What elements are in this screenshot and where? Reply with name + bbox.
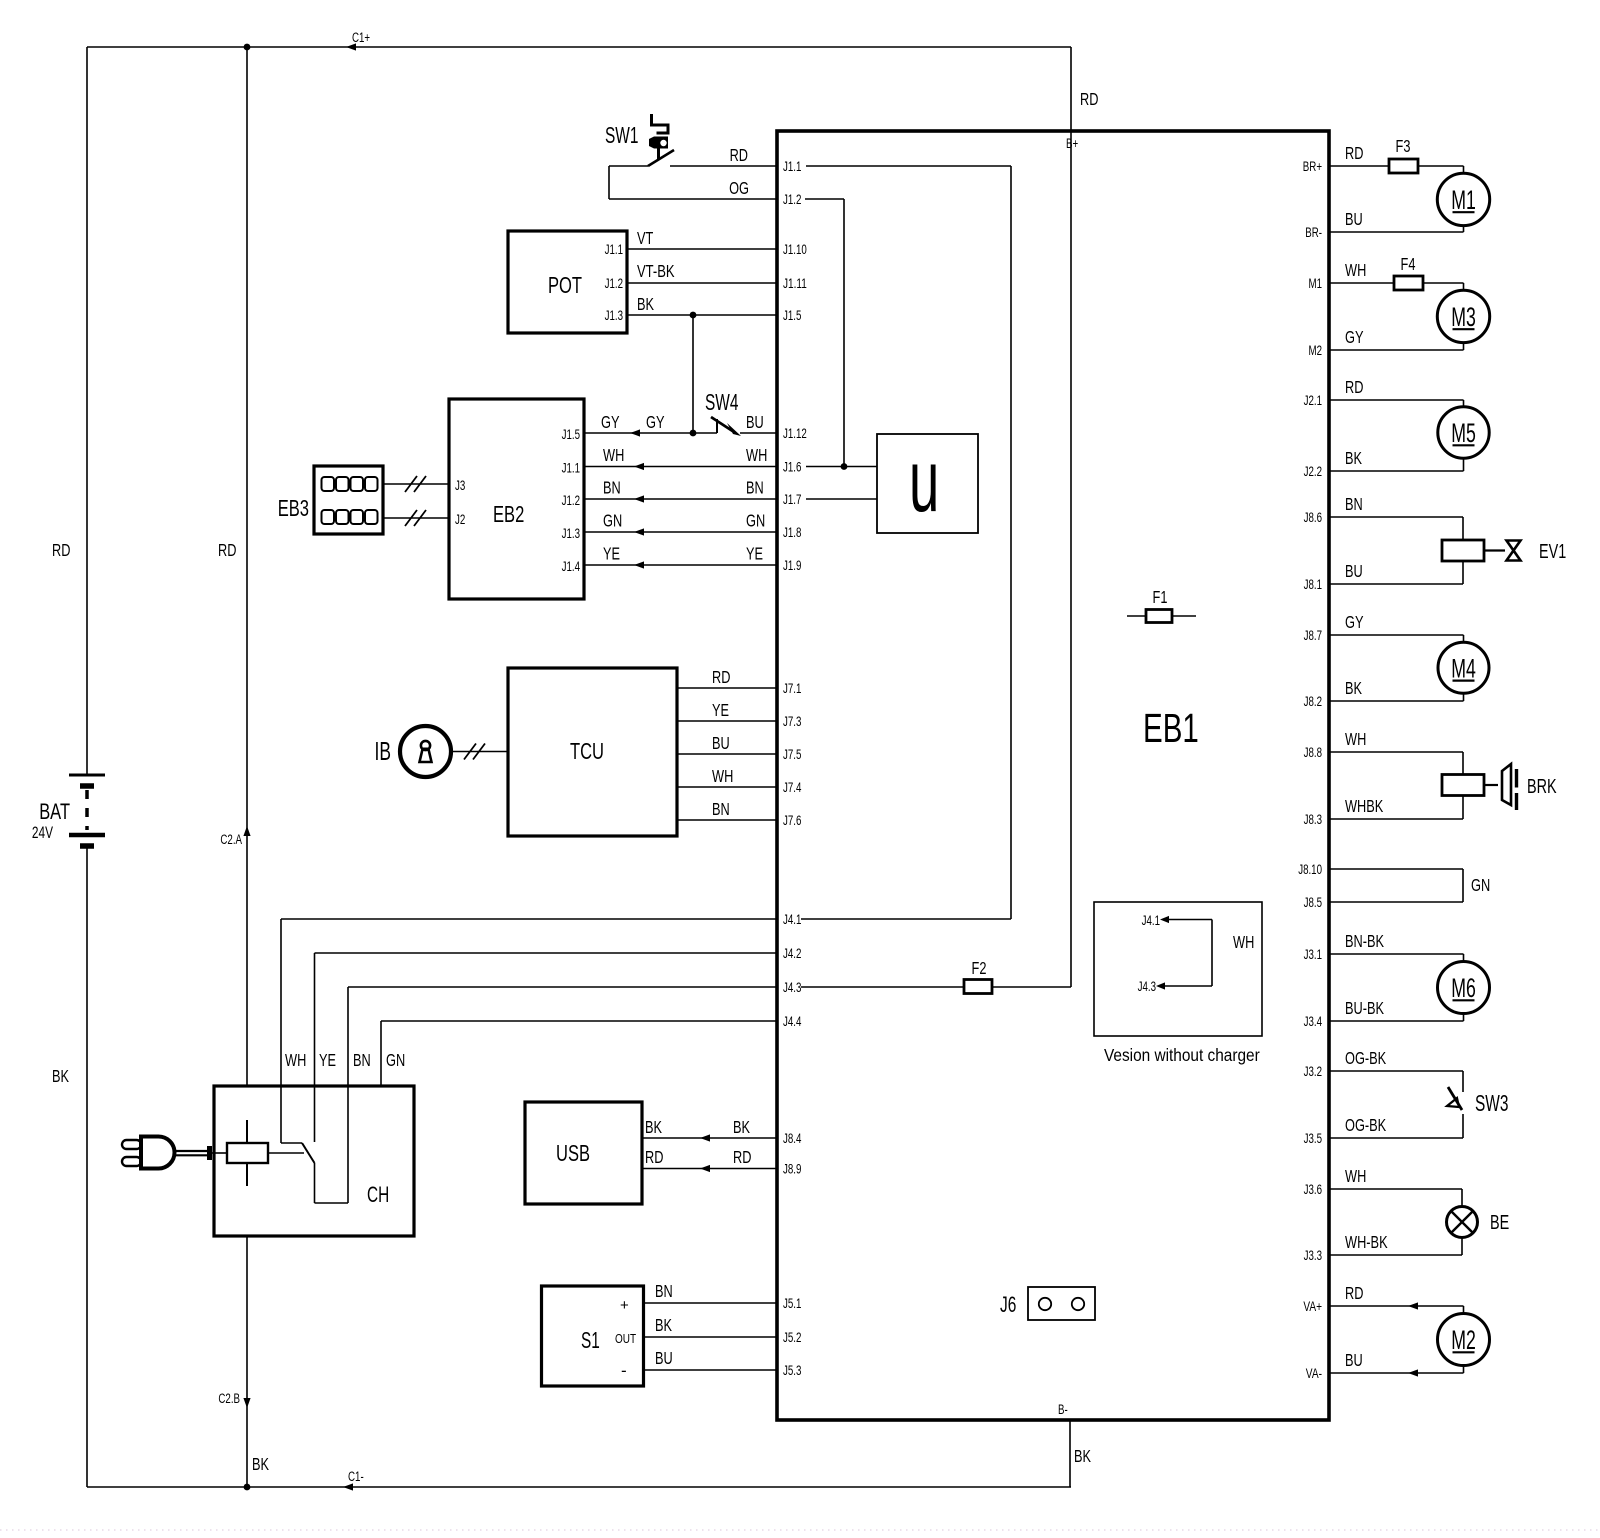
wire internal J1.2 to U node	[805, 198, 844, 200]
svg-text:J3.3: J3.3	[1304, 1248, 1322, 1263]
svg-text:BR+: BR+	[1303, 159, 1322, 174]
svg-text:M3: M3	[1451, 302, 1476, 332]
svg-text:BK: BK	[252, 1454, 269, 1474]
arrow note J4.3	[1156, 982, 1165, 989]
svg-text:USB: USB	[556, 1140, 590, 1166]
svg-text:B+: B+	[1066, 136, 1078, 151]
svg-text:J3.4: J3.4	[1304, 1014, 1323, 1029]
wire VT POT to J1.10	[627, 248, 777, 250]
svg-text:BU: BU	[712, 733, 730, 753]
wire WH J4.1 to charger	[281, 918, 777, 920]
svg-text:J8.8: J8.8	[1304, 745, 1322, 760]
svg-text:BN: BN	[353, 1050, 371, 1070]
wire relay to switch	[268, 1152, 304, 1154]
svg-text:C2.B: C2.B	[218, 1391, 240, 1406]
svg-text:RD: RD	[730, 145, 748, 165]
svg-text:B-: B-	[1058, 1402, 1068, 1417]
svg-text:BK: BK	[637, 294, 654, 314]
decor dotted margin	[0, 1529, 1600, 1531]
svg-text:J8.6: J8.6	[1304, 510, 1322, 525]
pin labels EB1 right edge	[1298, 159, 1322, 1381]
wire BN J4.3 to charger	[348, 986, 777, 988]
svg-text:M4: M4	[1451, 653, 1476, 683]
module EB2 box	[449, 399, 584, 599]
switch SW4 contact stub	[716, 419, 718, 433]
wire BK C2 branch lower	[246, 1236, 248, 1487]
svg-text:YE: YE	[603, 544, 620, 564]
svg-text:RD: RD	[1345, 143, 1363, 163]
svg-text:J1.4: J1.4	[562, 559, 581, 574]
wire BK J8.2 to M4	[1329, 700, 1464, 702]
svg-text:J3.1: J3.1	[1304, 947, 1322, 962]
wire RD USB to J8.9	[642, 1168, 777, 1170]
potentiometer POT box	[508, 231, 627, 333]
motor M6	[1438, 962, 1490, 1014]
svg-text:SW3: SW3	[1475, 1090, 1508, 1116]
svg-text:YE: YE	[712, 700, 729, 720]
wire F3 to M1	[1418, 165, 1464, 167]
svg-text:J1.9: J1.9	[783, 558, 801, 573]
converter U box	[877, 434, 978, 533]
motor M1	[1437, 173, 1489, 225]
connector J6 box	[1028, 1287, 1095, 1320]
svg-text:BE: BE	[1490, 1212, 1509, 1234]
svg-text:J1.12: J1.12	[783, 426, 807, 441]
svg-text:EB1: EB1	[1143, 705, 1199, 751]
svg-text:IB: IB	[375, 736, 392, 766]
svg-text:J4.1: J4.1	[783, 912, 801, 927]
wire WH-BK J3.3 to BE	[1329, 1254, 1462, 1256]
controller EB1 box	[777, 131, 1329, 1420]
svg-text:J4.4: J4.4	[783, 1014, 802, 1029]
svg-text:J1.11: J1.11	[783, 276, 807, 291]
motor M5	[1438, 407, 1489, 458]
svg-text:24V: 24V	[32, 824, 53, 842]
wire RD BR+ to F3	[1329, 165, 1389, 167]
svg-text:OG: OG	[729, 178, 749, 198]
sensor S1 box	[542, 1286, 644, 1386]
svg-text:POT: POT	[548, 272, 582, 298]
svg-text:EB3: EB3	[278, 495, 309, 521]
svg-text:VT-BK: VT-BK	[637, 261, 675, 281]
svg-text:M2: M2	[1451, 1325, 1476, 1355]
wire GN EB2 to EB1	[584, 531, 777, 533]
svg-text:WH-BK: WH-BK	[1345, 1232, 1388, 1252]
switch SW4 blade	[711, 417, 734, 432]
svg-text:YE: YE	[319, 1050, 336, 1070]
arrow note J4.1	[1160, 916, 1169, 923]
arrow RD VA+	[1408, 1302, 1418, 1309]
svg-text:J7.3: J7.3	[783, 714, 801, 729]
svg-text:WH: WH	[603, 445, 624, 465]
svg-text:BU: BU	[1345, 1350, 1363, 1370]
svg-text:M2: M2	[1309, 343, 1323, 358]
svg-text:RD: RD	[52, 540, 70, 560]
svg-text:WH: WH	[1233, 932, 1254, 952]
svg-text:M1: M1	[1451, 185, 1476, 215]
wire RD VA+ to M2	[1329, 1305, 1464, 1307]
arrow WH toward EB2	[634, 463, 644, 470]
slash marks J2 multiwire	[405, 510, 417, 526]
wire BN-BK J3.1 to M6	[1329, 953, 1464, 955]
connector EB3 box	[314, 466, 383, 534]
slash marks IB multiwire	[464, 744, 476, 760]
wire YE TCU to EB1	[677, 720, 777, 722]
wire RD TCU to EB1	[677, 687, 777, 689]
svg-text:C2.A: C2.A	[220, 832, 242, 847]
wire B+ top bus C1+	[87, 46, 1071, 48]
svg-text:RD: RD	[645, 1147, 663, 1167]
svg-text:WH: WH	[285, 1050, 306, 1070]
junction dot bottom bus / C2 branch	[244, 1484, 251, 1491]
svg-text:GN: GN	[746, 511, 765, 531]
svg-text:J8.5: J8.5	[1304, 895, 1322, 910]
svg-text:BK: BK	[645, 1117, 662, 1137]
svg-text:J8.3: J8.3	[1304, 812, 1322, 827]
svg-text:BN: BN	[746, 478, 764, 498]
svg-text:J1.3: J1.3	[605, 308, 623, 323]
wire RD battery positive left drop	[86, 47, 88, 776]
wire BN EB2 to EB1	[584, 498, 777, 500]
svg-text:BU: BU	[1345, 561, 1363, 581]
plug cord	[175, 1150, 207, 1152]
svg-text:WH: WH	[1345, 1166, 1366, 1186]
wire BRK coil to pad	[1484, 784, 1498, 786]
wire GY M2 to M3	[1329, 349, 1464, 351]
svg-text:J4.3: J4.3	[1138, 979, 1156, 994]
svg-text:J3.2: J3.2	[1304, 1064, 1322, 1079]
plug AC body	[141, 1137, 175, 1169]
wire RD J2.1 to M5	[1329, 399, 1464, 401]
wire VT-BK POT to J1.11	[627, 282, 777, 284]
svg-text:SW4: SW4	[705, 389, 739, 415]
svg-text:M1: M1	[1309, 276, 1323, 291]
pin labels EB1 left edge	[783, 159, 807, 1378]
svg-text:GN: GN	[603, 511, 622, 531]
slash marks J3 multiwire	[405, 476, 417, 492]
svg-text:RD: RD	[1345, 377, 1363, 397]
svg-text:J2.2: J2.2	[1304, 464, 1322, 479]
svg-text:BK: BK	[52, 1066, 69, 1086]
wire internal J1.7 to U	[806, 498, 877, 500]
wire YE EB2 to EB1	[584, 564, 777, 566]
switch CH blade	[302, 1143, 315, 1163]
switch SW1 key icon	[652, 114, 669, 133]
svg-text:OUT: OUT	[615, 1331, 636, 1346]
wire note J4.1 to J4.3 link	[1163, 919, 1212, 921]
svg-text:J4.3: J4.3	[783, 980, 801, 995]
wire EV1 coil to valve	[1484, 549, 1505, 551]
svg-text:J2: J2	[455, 512, 465, 527]
svg-text:J8.10: J8.10	[1298, 862, 1322, 877]
svg-text:TCU: TCU	[570, 738, 604, 764]
svg-text:VT: VT	[637, 228, 654, 248]
wire OG SW1 loop to J1.2	[608, 166, 610, 199]
keyhole icon IB	[421, 741, 430, 750]
wire internal J4.3 to B+ via F2	[801, 986, 1071, 988]
svg-text:J1.2: J1.2	[562, 493, 580, 508]
svg-text:RD: RD	[733, 1147, 751, 1167]
svg-text:BU: BU	[1345, 209, 1363, 229]
arrow GN toward EB2	[634, 528, 644, 535]
svg-text:OG-BK: OG-BK	[1345, 1048, 1386, 1068]
module USB box	[525, 1102, 642, 1204]
wire BU VA- to M2	[1329, 1372, 1464, 1374]
svg-text:WH: WH	[746, 445, 767, 465]
svg-text:GY: GY	[1345, 327, 1364, 347]
svg-text:RD: RD	[218, 540, 236, 560]
wire GN J4.4 to charger	[381, 1020, 777, 1022]
svg-text:J1.10: J1.10	[783, 242, 807, 257]
svg-text:RD: RD	[712, 667, 730, 687]
wire BU BR- to M1	[1329, 231, 1464, 233]
wire WH M1 to F4	[1329, 282, 1394, 284]
wire F4 to M3	[1423, 282, 1464, 284]
arrow BK USB	[700, 1134, 710, 1141]
wire GY SW4 row	[584, 432, 717, 434]
wire CH switch to BN	[314, 1163, 316, 1203]
arrow GY toward EB2	[630, 429, 640, 436]
brake coil BRK	[1442, 775, 1484, 796]
svg-text:BU: BU	[655, 1348, 673, 1368]
svg-text:GY: GY	[601, 412, 620, 432]
arrow BU VA-	[1408, 1369, 1418, 1376]
wire BK POT to J1.5	[627, 314, 777, 316]
svg-text:J1.2: J1.2	[783, 192, 801, 207]
arrow BN toward EB2	[634, 495, 644, 502]
fuse F4	[1394, 276, 1423, 290]
wire cord to relay	[212, 1152, 227, 1154]
svg-text:C1-: C1-	[348, 1469, 364, 1484]
wire WH TCU to EB1	[677, 786, 777, 788]
wire WH J3.6 to BE	[1329, 1188, 1462, 1190]
svg-text:J1.5: J1.5	[783, 308, 801, 323]
svg-text:M6: M6	[1451, 973, 1476, 1003]
svg-text:J8.1: J8.1	[1304, 577, 1322, 592]
svg-text:BN: BN	[603, 478, 621, 498]
junction dot top bus / C2 branch	[244, 44, 251, 51]
svg-text:BK: BK	[1074, 1446, 1091, 1466]
wire WH EB2 to EB1	[584, 466, 777, 468]
svg-text:M5: M5	[1451, 418, 1476, 448]
svg-text:BK: BK	[655, 1315, 672, 1335]
arrow C1+ direction	[346, 43, 356, 50]
wire BK J2.2 to M5	[1329, 470, 1464, 472]
beacon lamp BE	[1447, 1207, 1478, 1238]
wire BK branch down to SW4 row	[692, 315, 694, 433]
svg-text:WH: WH	[1345, 260, 1366, 280]
svg-text:J1.8: J1.8	[783, 525, 801, 540]
svg-text:EV1: EV1	[1539, 541, 1566, 563]
svg-text:WH: WH	[1345, 729, 1366, 749]
svg-text:BN: BN	[1345, 494, 1363, 514]
svg-text:J1.6: J1.6	[783, 460, 801, 475]
wire WHBK J8.3 to BRK	[1329, 818, 1463, 820]
switch SW1 blade	[648, 150, 674, 166]
wire IB to TCU	[451, 751, 508, 753]
svg-text:J8.9: J8.9	[783, 1162, 801, 1177]
svg-text:J1.2: J1.2	[605, 276, 623, 291]
svg-text:CH: CH	[367, 1182, 389, 1207]
svg-text:BN: BN	[712, 799, 730, 819]
wire WH to CH switch	[281, 1142, 302, 1144]
brake pad symbol BRK	[1502, 764, 1511, 805]
arrow C1- direction	[343, 1483, 353, 1490]
svg-text:+: +	[620, 1297, 629, 1314]
svg-text:BK: BK	[733, 1117, 750, 1137]
relay element in charger	[246, 1120, 248, 1186]
svg-text:RD: RD	[1345, 1283, 1363, 1303]
svg-text:BAT: BAT	[39, 799, 70, 824]
svg-text:J6: J6	[1000, 1292, 1016, 1317]
svg-text:S1: S1	[581, 1327, 600, 1353]
svg-text:GY: GY	[646, 412, 665, 432]
svg-text:J3.5: J3.5	[1304, 1131, 1322, 1146]
svg-text:J7.4: J7.4	[783, 780, 802, 795]
svg-text:BK: BK	[1345, 448, 1362, 468]
svg-text:GN: GN	[1471, 875, 1490, 895]
wire GY J8.7 to M4	[1329, 634, 1464, 636]
svg-text:J3: J3	[455, 478, 465, 493]
svg-text:WHBK: WHBK	[1345, 796, 1384, 816]
wire internal J1.6 to U	[806, 466, 877, 468]
switch SW3 blade	[1448, 1087, 1462, 1110]
wire B+ internal drop to F2/J4.3	[1070, 131, 1072, 987]
svg-text:u: u	[909, 432, 939, 531]
svg-text:J4.1: J4.1	[1142, 913, 1160, 928]
svg-text:BRK: BRK	[1527, 776, 1557, 798]
arrow C2.A direction up	[243, 826, 250, 836]
valve symbol EV1	[1507, 541, 1521, 561]
svg-text:J7.5: J7.5	[783, 747, 801, 762]
svg-text:J8.7: J8.7	[1304, 628, 1322, 643]
wire OG-BK J3.5 to SW3	[1329, 1137, 1463, 1139]
arrow RD USB	[700, 1165, 710, 1172]
control unit TCU box	[508, 668, 677, 836]
arrow YE toward EB2	[634, 561, 644, 568]
connector EB3 pins	[322, 477, 378, 524]
motor M4	[1438, 642, 1489, 693]
svg-text:WH: WH	[712, 766, 733, 786]
motor M2	[1438, 1314, 1490, 1366]
svg-text:BN: BN	[655, 1281, 673, 1301]
svg-text:C1+: C1+	[352, 30, 370, 45]
svg-text:J1.1: J1.1	[605, 242, 623, 257]
wire BK battery negative left drop	[86, 848, 88, 1487]
note box version without charger	[1094, 902, 1262, 1036]
wire BN TCU to EB1	[677, 819, 777, 821]
svg-text:-: -	[621, 1361, 627, 1380]
svg-text:J8.2: J8.2	[1304, 694, 1322, 709]
wire BK USB to J8.4	[642, 1137, 777, 1139]
junction dot U node	[841, 463, 848, 470]
charger CH box	[214, 1086, 414, 1236]
svg-text:J5.3: J5.3	[783, 1363, 801, 1378]
svg-text:SW1: SW1	[605, 122, 638, 148]
svg-text:GN: GN	[386, 1050, 405, 1070]
plug AC prongs	[122, 1140, 141, 1149]
wire GN J8.10 loop	[1329, 868, 1463, 870]
wire BU J8.1 to EV1	[1329, 583, 1463, 585]
svg-text:RD: RD	[1080, 89, 1098, 109]
wire YE J4.2 to charger	[315, 952, 778, 954]
wire RD C2 branch upper	[246, 47, 248, 1086]
svg-text:GY: GY	[1345, 612, 1364, 632]
wire WH J8.8 to BRK	[1329, 751, 1463, 753]
svg-text:J1.3: J1.3	[562, 526, 580, 541]
svg-text:J4.2: J4.2	[783, 946, 801, 961]
svg-text:F2: F2	[972, 958, 987, 978]
key switch IB circle	[400, 726, 451, 777]
svg-text:J8.4: J8.4	[783, 1131, 802, 1146]
svg-text:BR-: BR-	[1305, 225, 1322, 240]
wire J2 EB3 to EB2	[383, 517, 449, 519]
svg-text:YE: YE	[746, 544, 763, 564]
svg-text:J1.7: J1.7	[783, 492, 801, 507]
svg-text:OG-BK: OG-BK	[1345, 1115, 1386, 1135]
svg-text:J1.1: J1.1	[562, 461, 580, 476]
svg-text:BN-BK: BN-BK	[1345, 931, 1384, 951]
fuse F3	[1389, 159, 1418, 173]
wire OG-BK J3.2 to SW3	[1329, 1070, 1463, 1072]
svg-text:J1.1: J1.1	[783, 159, 801, 174]
arrow C2.B direction down	[243, 1398, 250, 1408]
wire internal J1.1 to J4.1	[806, 165, 1011, 167]
wire J3 EB3 to EB2	[383, 483, 449, 485]
wire B- bottom bus C1-	[87, 1486, 1071, 1488]
wire BN J8.6 to EV1	[1329, 516, 1463, 518]
wire RD SW1 to J1.1	[609, 165, 648, 167]
svg-text:F1: F1	[1153, 587, 1168, 607]
wire B- internal stub	[1069, 1420, 1071, 1487]
svg-text:Vesion without charger: Vesion without charger	[1104, 1045, 1260, 1065]
svg-text:J7.1: J7.1	[783, 681, 801, 696]
fuse F1	[1127, 615, 1196, 617]
svg-text:EB2: EB2	[493, 501, 524, 527]
valve coil EV1	[1442, 540, 1484, 561]
wire BU TCU to EB1	[677, 753, 777, 755]
svg-text:J7.6: J7.6	[783, 813, 801, 828]
svg-text:J1.5: J1.5	[562, 427, 580, 442]
svg-text:F4: F4	[1401, 254, 1416, 274]
svg-text:BU: BU	[746, 412, 764, 432]
junction dot BK/SW4 branch	[690, 312, 697, 319]
svg-text:J2.1: J2.1	[1304, 393, 1322, 408]
wire BU S1 to J5.3	[644, 1369, 778, 1371]
svg-text:BU-BK: BU-BK	[1345, 998, 1384, 1018]
svg-text:J5.2: J5.2	[783, 1330, 801, 1345]
svg-text:VA+: VA+	[1303, 1299, 1322, 1314]
junction dot SW4 left node	[690, 430, 697, 437]
svg-text:F3: F3	[1396, 136, 1411, 156]
wire BN S1 to J5.1	[644, 1302, 778, 1304]
svg-text:J5.1: J5.1	[783, 1296, 801, 1311]
battery BAT 24V	[69, 774, 105, 777]
svg-text:J3.6: J3.6	[1304, 1182, 1322, 1197]
wire RD feed into EB1 B+	[1070, 47, 1072, 131]
svg-text:BK: BK	[1345, 678, 1362, 698]
wire BU-BK J3.4 to M6	[1329, 1020, 1464, 1022]
svg-text:VA-: VA-	[1306, 1366, 1322, 1381]
motor M3	[1437, 290, 1489, 342]
fuse F2	[964, 980, 992, 994]
connector J6 pin circles	[1039, 1298, 1051, 1310]
wire BK S1 to J5.2	[644, 1336, 778, 1338]
